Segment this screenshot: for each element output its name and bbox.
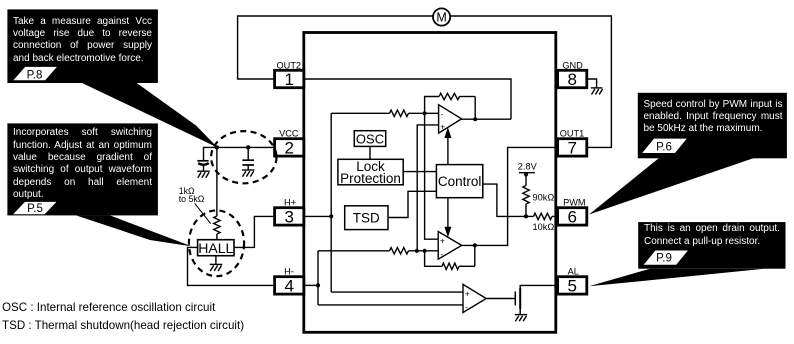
wire: Control drive arrow to top amp — [444, 127, 451, 164]
node: VCC junction at cap C2 — [246, 145, 250, 149]
svg-text:+: + — [440, 236, 445, 246]
node: bottom amp minus junction A — [415, 249, 419, 253]
op-amp: AL comparator — [463, 284, 486, 312]
svg-text:P.9: P.9 — [656, 253, 672, 265]
wire: H- to bottom amp minus input — [318, 250, 390, 252]
svg-text:90kΩ: 90kΩ — [533, 192, 555, 202]
callout pointer to HALL (from P.5 box) — [76, 215, 192, 246]
svg-text:6: 6 — [567, 208, 576, 227]
wire: bottom amp feedback loop — [425, 245, 475, 266]
wire: Control output to PWM node — [483, 184, 534, 216]
svg-text:4: 4 — [284, 277, 293, 296]
motor M1 — [433, 8, 450, 25]
label 2.8V internal reference — [518, 162, 538, 186]
resistor 10kohm — [533, 213, 558, 232]
callout box P.8 — [7, 9, 158, 83]
callout text P.6 — [644, 99, 783, 136]
pin 5 AL — [558, 267, 587, 296]
svg-text:5: 5 — [567, 277, 576, 296]
svg-text:2: 2 — [284, 139, 293, 158]
svg-text:10kΩ: 10kΩ — [533, 222, 555, 232]
capacitor C2 — [242, 147, 254, 170]
resistor: top amp input — [390, 110, 409, 116]
pin 1 OUT2 — [275, 60, 304, 89]
node: top amp minus junction — [423, 111, 427, 115]
ground: hall element — [210, 256, 223, 271]
svg-text:OUT1: OUT1 — [560, 129, 585, 139]
wire: H+ to top amp minus input — [331, 112, 389, 114]
svg-text:3: 3 — [284, 208, 293, 227]
pin 4 H- — [275, 267, 304, 296]
block Control — [436, 165, 482, 198]
svg-text:AL: AL — [568, 267, 579, 277]
svg-text:-: - — [440, 249, 443, 259]
node: H+ junction — [329, 214, 333, 218]
ground: GND pin 8 — [587, 79, 603, 95]
svg-text:H-: H- — [284, 267, 294, 277]
wire: resistor to top amp minus — [409, 112, 439, 114]
svg-text:P.8: P.8 — [27, 69, 43, 81]
pin 2 VCC — [275, 129, 304, 158]
ground: MOSFET source — [515, 315, 527, 322]
svg-text:M: M — [436, 11, 446, 25]
svg-text:OSC: OSC — [356, 131, 384, 146]
node: top amp output junction — [473, 117, 477, 121]
label 1k to 5k — [179, 186, 211, 224]
wire: resistor to bottom amp minus — [409, 250, 439, 252]
svg-text:-: - — [465, 301, 468, 311]
wire: OUT2 internal net (pin1 to top amp output) — [304, 79, 511, 119]
wire: Lock Protection to Control — [403, 171, 436, 173]
wire: top amp output to OUT2 corner — [462, 118, 511, 120]
node: bottom amp minus junction B — [423, 249, 427, 253]
capacitor C1 (electrolytic) — [197, 161, 208, 171]
dashed ellipse around VCC caps — [211, 131, 276, 183]
block OSC — [354, 131, 385, 147]
ground: cap C1 — [197, 171, 210, 178]
svg-text:7: 7 — [567, 139, 576, 158]
node: H- junction — [316, 283, 320, 287]
svg-text:HALL: HALL — [198, 240, 233, 256]
wire: motor loop OUT1 side (motor to pin7) — [450, 16, 611, 147]
callout text P.8 — [13, 16, 152, 65]
wire: top amp feedback loop — [425, 97, 476, 120]
svg-text:P.6: P.6 — [656, 141, 672, 153]
svg-text:Control: Control — [438, 174, 482, 189]
op-amp: top output amplifier — [439, 105, 462, 133]
legend TSD definition — [2, 319, 244, 332]
hall element HALL — [198, 240, 234, 256]
transistor: AL open-drain MOSFET — [486, 285, 558, 314]
wire: hall to H- (pin4) — [188, 247, 275, 285]
svg-text:P.5: P.5 — [27, 203, 43, 215]
legend OSC definition — [2, 301, 215, 314]
wire: OSC to Lock Protection — [369, 146, 371, 159]
callout box P.5 — [7, 123, 158, 215]
wire: VCC external line — [204, 147, 275, 160]
block Lock Protection — [338, 159, 403, 186]
wire: H+ internal net (pin3 node vertical) — [304, 113, 331, 292]
svg-text:GND: GND — [562, 60, 583, 70]
svg-text:+: + — [440, 122, 445, 132]
callout pointer to VCC node (from P.8 box) — [81, 83, 218, 148]
wire: cross-couple line B (top minus node to bottom amp plus) — [425, 113, 439, 239]
resistor 90kohm — [523, 186, 555, 217]
pin 8 GND — [558, 60, 587, 89]
callout text P.9 — [644, 223, 780, 248]
resistor: bottom amp feedback — [442, 263, 459, 269]
wire: hall to H+ (pin3) — [234, 216, 275, 247]
svg-text:OUT2: OUT2 — [277, 60, 302, 70]
callout pointer to PWM pin 6 (from P.6 box) — [589, 158, 754, 215]
IC body U1 — [304, 33, 556, 333]
svg-text:Protection: Protection — [340, 171, 401, 186]
wire: motor loop OUT2 side (pin1 to motor) — [238, 16, 434, 79]
wire: hall inputs to AL comparator — [318, 292, 463, 305]
svg-text:8: 8 — [567, 70, 576, 89]
wire: H- internal net (pin4 vertical) — [304, 251, 318, 305]
callout box P.9 — [638, 222, 785, 269]
node: VCC junction at hall bias — [215, 145, 219, 149]
pin 6 PWM — [558, 198, 587, 227]
node: bottom amp output junction — [473, 243, 477, 247]
resistor: hall bias 1k-5k — [214, 147, 220, 239]
svg-text:TSD: TSD — [353, 210, 380, 225]
svg-text:PWM: PWM — [563, 198, 585, 208]
pin 7 OUT1 — [558, 129, 587, 158]
op-amp: bottom output amplifier — [438, 232, 462, 260]
callout text P.5 — [13, 127, 152, 201]
callout pointer to AL pin 5 (from P.9 box) — [589, 269, 765, 287]
wire: Control drive arrow to bottom amp — [444, 198, 451, 238]
svg-text:H+: H+ — [284, 198, 296, 208]
svg-text:to 5kΩ: to 5kΩ — [179, 194, 205, 204]
svg-text:2.8V: 2.8V — [518, 162, 538, 172]
callout box P.6 — [638, 93, 787, 159]
wire: bottom amp output to OUT1 (pin7) — [462, 147, 556, 245]
dashed ellipse around hall element — [189, 210, 244, 276]
ground: cap C2 — [242, 170, 255, 177]
node: PWM divider junction — [524, 214, 528, 218]
svg-text:1: 1 — [284, 70, 293, 89]
resistor: bottom amp input — [390, 248, 409, 254]
pin 3 H+ — [275, 198, 304, 227]
wire: top amp plus input / cross-couple line A — [417, 125, 438, 251]
svg-text:-: - — [441, 109, 444, 119]
svg-text:VCC: VCC — [279, 129, 299, 139]
wire: TSD to Control — [388, 191, 436, 217]
block TSD — [345, 206, 388, 230]
resistor: top amp feedback — [439, 93, 460, 99]
svg-text:+: + — [465, 288, 470, 298]
